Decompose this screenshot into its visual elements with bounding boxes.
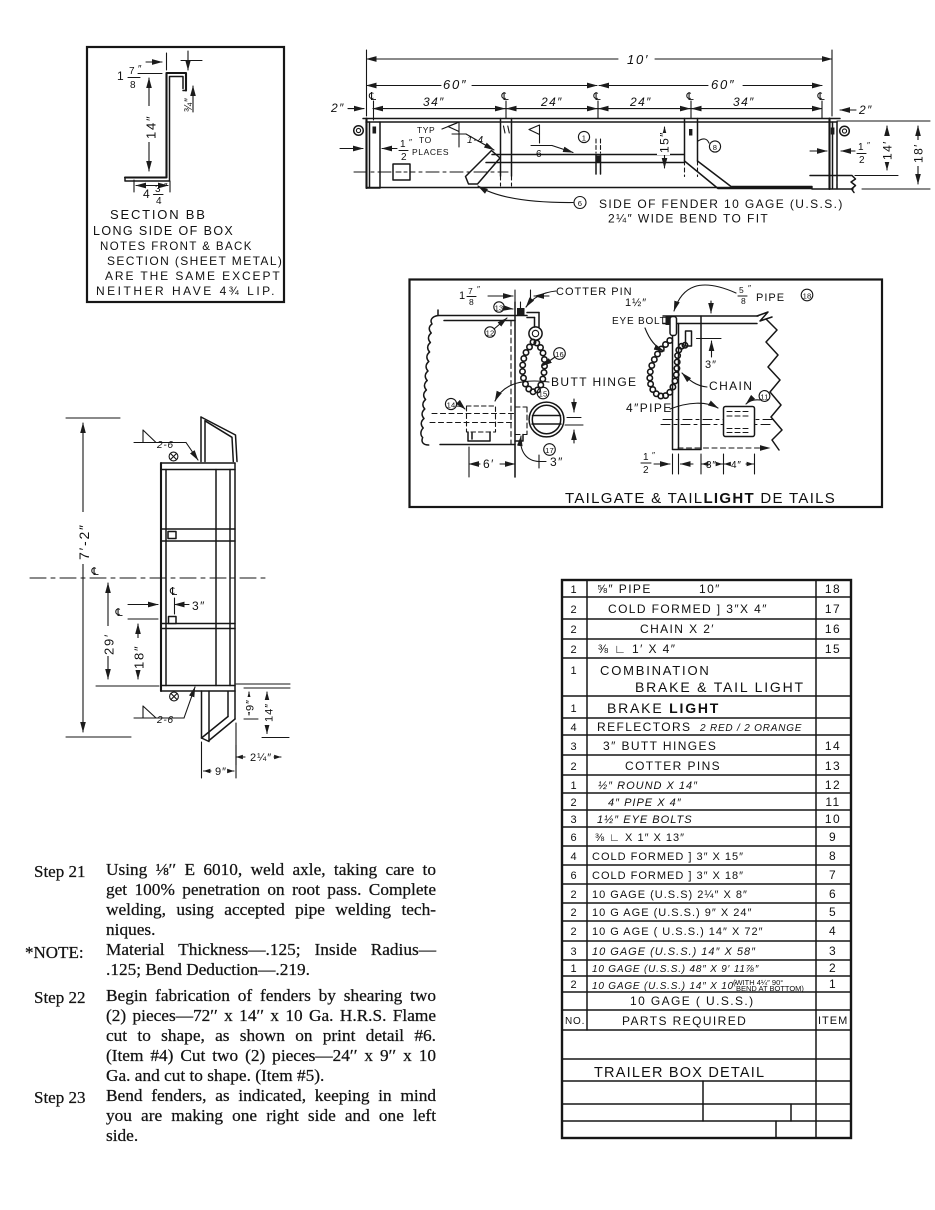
- svg-text:3″ BUTT HINGES: 3″ BUTT HINGES: [603, 739, 717, 753]
- section BB Z-profile sheet metal outline: [125, 73, 186, 178]
- svg-text:BEND AT BOTTOM): BEND AT BOTTOM): [736, 984, 804, 993]
- weld symbol 6 flag: [529, 125, 552, 146]
- top edge double line: [161, 463, 235, 470]
- svg-text:2 RED / 2 ORANGE: 2 RED / 2 ORANGE: [699, 723, 802, 734]
- dim 3 inch chain drop: [697, 338, 722, 340]
- lower cross member: [161, 624, 235, 629]
- svg-text:1: 1: [570, 584, 577, 596]
- svg-text:1: 1: [570, 703, 577, 715]
- eye bolt rod: [670, 317, 677, 336]
- svg-text:CHAIN: CHAIN: [709, 379, 753, 393]
- taillight: [529, 402, 564, 437]
- dim 9 inch vertical: [248, 692, 250, 715]
- right stake pocket: [685, 119, 698, 162]
- end wall left edge: [160, 463, 162, 691]
- chain keeper: [686, 331, 692, 346]
- dim 2 inch right: [840, 109, 856, 111]
- svg-text:15: 15: [825, 642, 841, 656]
- svg-text:2: 2: [859, 155, 865, 166]
- svg-text:2: 2: [570, 624, 577, 636]
- svg-text:8: 8: [469, 297, 474, 307]
- dimension 4 3/4 inch flange: [136, 185, 168, 187]
- svg-text:6: 6: [536, 149, 542, 160]
- svg-text:3: 3: [570, 814, 577, 826]
- dimension 3/4 lip: [192, 86, 194, 96]
- svg-text:60″: 60″: [443, 77, 467, 92]
- weld symbol 2-6 bottom: [134, 706, 184, 718]
- svg-text:2: 2: [570, 979, 577, 991]
- svg-text:2: 2: [570, 644, 577, 656]
- svg-text:5: 5: [739, 285, 744, 295]
- svg-text:COLD FORMED ] 3″ X 18″: COLD FORMED ] 3″ X 18″: [592, 870, 744, 882]
- svg-text:COTTER PIN: COTTER PIN: [556, 286, 633, 298]
- svg-text:16: 16: [825, 622, 841, 636]
- upper cross member: [161, 529, 235, 541]
- svg-text:18: 18: [803, 292, 812, 301]
- svg-text:PLACES: PLACES: [412, 147, 449, 157]
- extension lines row: [374, 101, 823, 120]
- svg-text:1: 1: [570, 963, 577, 975]
- svg-text:1: 1: [829, 977, 837, 991]
- left stake bolt: [373, 127, 377, 134]
- fender diagonal (left): [466, 151, 501, 185]
- svg-text:2″: 2″: [330, 101, 345, 115]
- svg-text:3: 3: [155, 184, 161, 195]
- svg-text:1: 1: [643, 452, 649, 463]
- svg-text:TRAILER BOX DETAIL: TRAILER BOX DETAIL: [594, 1065, 765, 1081]
- svg-text:″: ″: [748, 283, 752, 293]
- svg-text:4: 4: [156, 196, 162, 207]
- svg-text:COTTER PINS: COTTER PINS: [625, 759, 721, 773]
- balloon 17: [544, 444, 556, 456]
- hinge eye circle: [529, 327, 542, 340]
- svg-text:10 GAGE (U.S.S.) 14″ X 58″: 10 GAGE (U.S.S.) 14″ X 58″: [592, 946, 756, 958]
- svg-text:4″: 4″: [731, 460, 742, 471]
- lower clip: [169, 617, 177, 624]
- svg-text:9: 9: [829, 830, 837, 844]
- svg-text:7′-2″: 7′-2″: [76, 523, 92, 560]
- fender diagonal (right) and low run: [685, 161, 813, 189]
- svg-text:COLD FORMED ] 3″X 4″: COLD FORMED ] 3″X 4″: [608, 602, 768, 616]
- svg-text:1½″ EYE BOLTS: 1½″ EYE BOLTS: [597, 814, 693, 826]
- svg-text:14″: 14″: [144, 115, 159, 139]
- balloon 16: [554, 348, 566, 360]
- svg-text:3″: 3″: [706, 460, 717, 471]
- top flap (fender top bend): [201, 417, 205, 462]
- svg-text:34″: 34″: [423, 95, 445, 109]
- taillight height dim: [573, 399, 575, 412]
- right frame strip with break: [810, 176, 856, 193]
- side view top rails: [363, 119, 840, 123]
- svg-text:2: 2: [829, 961, 837, 975]
- centerline symbols row: [368, 91, 376, 103]
- svg-text:LONG SIDE OF BOX: LONG SIDE OF BOX: [93, 224, 234, 238]
- svg-text:1: 1: [858, 142, 864, 153]
- svg-text:24″: 24″: [629, 95, 652, 109]
- svg-text:2¼″ WIDE BEND TO FIT: 2¼″ WIDE BEND TO FIT: [608, 212, 769, 226]
- svg-text:2: 2: [570, 604, 577, 616]
- step instructions text block: [34, 862, 85, 882]
- svg-text:1: 1: [459, 290, 466, 302]
- svg-text:NOTES FRONT & BACK: NOTES FRONT & BACK: [100, 241, 253, 253]
- svg-text:15: 15: [539, 390, 548, 399]
- hidden stake pocket (dashed): [596, 139, 601, 153]
- tailgate details border frame: [410, 280, 883, 508]
- dim chain line 34-24-24-34: [373, 108, 822, 110]
- svg-text:16: 16: [555, 350, 564, 359]
- dim 2 1/4 inch: [235, 745, 237, 765]
- svg-text:3: 3: [570, 946, 577, 958]
- svg-text:1½″: 1½″: [625, 297, 647, 309]
- svg-text:EYE BOLT: EYE BOLT: [612, 316, 667, 327]
- dim 18 inch right side: [862, 188, 930, 190]
- balloon 11: [759, 391, 770, 402]
- svg-text:12: 12: [486, 329, 495, 338]
- svg-text:3: 3: [829, 944, 837, 958]
- center stake pocket: [501, 119, 512, 177]
- svg-text:10 GAGE ( U.S.S.): 10 GAGE ( U.S.S.): [630, 994, 755, 1008]
- svg-text:17: 17: [825, 602, 841, 616]
- svg-text:″: ″: [652, 450, 656, 460]
- axle centerline: [354, 171, 508, 173]
- balloon 14: [445, 398, 456, 409]
- dim 10 ft overall: [367, 50, 833, 116]
- svg-text:BRAKE & TAIL LIGHT: BRAKE & TAIL LIGHT: [635, 679, 805, 695]
- dim 29 ft: [107, 583, 109, 679]
- section BB border frame: [87, 47, 284, 302]
- svg-text:⅜ ∟ 1′ X 4″: ⅜ ∟ 1′ X 4″: [598, 642, 676, 656]
- svg-text:½″ ROUND X 14″: ½″ ROUND X 14″: [598, 780, 698, 792]
- svg-text:6: 6: [570, 870, 577, 882]
- svg-text:14′: 14′: [881, 140, 895, 160]
- svg-text:10 GAGE (U.S.S) 2¼″ X 8″: 10 GAGE (U.S.S) 2¼″ X 8″: [592, 889, 748, 901]
- bottom bolt circle: [170, 692, 179, 701]
- svg-text:SIDE OF FENDER 10 GAGE (: SIDE OF FENDER 10 GAGE (U.S.S.): [599, 197, 844, 211]
- bottom extension line: [96, 685, 159, 687]
- svg-text:ARE THE SAME EXCEPT: ARE THE SAME EXCEPT: [105, 269, 282, 283]
- svg-text:6: 6: [829, 887, 837, 901]
- svg-text:11: 11: [825, 795, 840, 809]
- left detail: box rear top rail: [438, 310, 527, 321]
- svg-text:PARTS REQUIRED: PARTS REQUIRED: [622, 1014, 747, 1028]
- fender rails: [486, 155, 684, 163]
- svg-text:12: 12: [825, 778, 841, 792]
- svg-text:2: 2: [570, 797, 577, 809]
- svg-text:1-4: 1-4: [467, 135, 484, 146]
- svg-text:6: 6: [570, 832, 577, 844]
- svg-text:13: 13: [495, 304, 504, 313]
- svg-text:10 G AGE ( U.S.S.) 14″ X 72″: 10 G AGE ( U.S.S.) 14″ X 72″: [592, 926, 764, 938]
- svg-text:CHAIN X 2′: CHAIN X 2′: [640, 622, 715, 636]
- tailgate verticals right detail: [673, 316, 702, 449]
- torn left edge of box: [421, 316, 438, 446]
- svg-text:14: 14: [447, 401, 456, 410]
- balloon 13: [494, 302, 504, 312]
- svg-text:1: 1: [570, 780, 577, 792]
- svg-text:3″: 3″: [705, 359, 717, 371]
- center stake hash mark: [504, 126, 510, 133]
- svg-text:2-6: 2-6: [156, 440, 174, 451]
- dim 14 inch right side: [837, 121, 930, 176]
- torn right edge zigzag: [766, 319, 782, 450]
- svg-text:2: 2: [401, 152, 407, 163]
- dim 60 inch right: [599, 85, 708, 87]
- svg-text:3″: 3″: [192, 599, 206, 613]
- svg-text:18′: 18′: [912, 143, 926, 163]
- svg-text:″: ″: [164, 182, 168, 193]
- svg-text:NO.: NO.: [565, 1016, 585, 1027]
- svg-text:2-6: 2-6: [156, 715, 174, 726]
- svg-text:⅜ ∟ X 1″ X 13″: ⅜ ∟ X 1″ X 13″: [595, 832, 685, 844]
- svg-text:1: 1: [400, 139, 406, 150]
- svg-text:¾″: ¾″: [183, 97, 195, 112]
- svg-text:18″: 18″: [132, 645, 147, 669]
- axle box: [393, 164, 410, 180]
- svg-text:14″: 14″: [264, 703, 276, 722]
- svg-text:4: 4: [143, 187, 151, 201]
- svg-text:1: 1: [582, 134, 586, 143]
- svg-text:10 G AGE (U.S.S.) 9″ X 24″: 10 G AGE (U.S.S.) 9″ X 24″: [592, 907, 752, 919]
- svg-text:24″: 24″: [540, 95, 563, 109]
- dim 14 inch vertical: [266, 692, 268, 734]
- cotter pin and hinge pin: [520, 302, 522, 310]
- bottom edge double line: [161, 686, 235, 692]
- bottom flap (fender bottom bend): [202, 691, 210, 741]
- dim 60 inch left: [367, 85, 442, 87]
- title block inner dividers: [703, 1081, 791, 1138]
- dimension 14 inch web: [138, 73, 162, 75]
- svg-text:1: 1: [570, 665, 577, 677]
- svg-text:⅝″ PIPE: ⅝″ PIPE: [597, 582, 652, 596]
- svg-text:11: 11: [760, 393, 768, 402]
- svg-text:3″: 3″: [550, 455, 564, 469]
- svg-text:4: 4: [829, 924, 837, 938]
- balloon 6: [574, 197, 586, 209]
- svg-text:ITEM: ITEM: [818, 1015, 848, 1027]
- left tie ring: [354, 126, 364, 136]
- svg-text:2: 2: [570, 907, 577, 919]
- svg-text:8: 8: [741, 296, 746, 306]
- right stake bolt: [831, 128, 835, 135]
- bottom dims right detail: [673, 454, 755, 474]
- balloon 1: [578, 131, 589, 142]
- svg-text:10 GAGE (U.S.S.) 48″ X 9′ 11⅞: 10 GAGE (U.S.S.) 48″ X 9′ 11⅞″: [592, 964, 759, 975]
- svg-text:SECTION BB: SECTION BB: [110, 207, 207, 222]
- svg-text:REFLECTORS: REFLECTORS: [597, 720, 691, 734]
- svg-text:1: 1: [117, 69, 125, 83]
- pipe (item 11): [724, 407, 755, 437]
- end wall right edge: [230, 463, 235, 691]
- svg-text:2¼″: 2¼″: [250, 752, 272, 764]
- left stake: [365, 119, 367, 189]
- svg-text:2: 2: [570, 889, 577, 901]
- weld symbol 1-4 flag: [448, 122, 466, 147]
- box bottom line: [440, 444, 515, 446]
- svg-text:2: 2: [570, 761, 577, 773]
- svg-text:TYP: TYP: [417, 125, 435, 135]
- hidden gate lines dashed: [661, 420, 772, 425]
- box floor line: [367, 187, 813, 189]
- right pocket bolt: [689, 129, 692, 136]
- svg-text:SECTION (SHEET METAL): SECTION (SHEET METAL): [107, 254, 283, 268]
- svg-text:34″: 34″: [733, 95, 755, 109]
- top rail right detail: [663, 316, 758, 324]
- arrow at gate top: [710, 301, 712, 313]
- svg-text:14: 14: [825, 739, 841, 753]
- balloon 8 with leader: [698, 139, 709, 143]
- svg-text:TAILGATE & TAILLIGHT DE TAIL: TAILGATE & TAILLIGHT DE TAILS: [565, 490, 836, 507]
- svg-text:BRAKE LIGHT: BRAKE LIGHT: [607, 700, 720, 716]
- dim 18 inch: [128, 618, 158, 620]
- svg-text:7: 7: [468, 286, 473, 296]
- hidden backing plate (dashed): [467, 406, 496, 432]
- svg-text:10′: 10′: [627, 52, 649, 67]
- dim 3 inch offset: [128, 604, 158, 606]
- svg-text:10″: 10″: [699, 582, 721, 596]
- inner face line: [215, 470, 217, 686]
- svg-text:17: 17: [545, 446, 554, 455]
- svg-text:18: 18: [825, 582, 841, 596]
- svg-text:NEITHER HAVE 4¾ LIP.: NEITHER HAVE 4¾ LIP.: [96, 284, 277, 298]
- dim 1/2 inch right: [810, 150, 827, 152]
- dim 9 inch bottom: [202, 723, 237, 778]
- svg-text:8: 8: [829, 849, 837, 863]
- svg-text:10: 10: [825, 812, 841, 826]
- dim 15 inch: [664, 127, 666, 168]
- svg-text:″: ″: [477, 284, 481, 294]
- top bolt circle: [169, 452, 178, 461]
- right extension lines: [236, 684, 290, 738]
- svg-text:15″: 15″: [658, 131, 672, 153]
- svg-text:6′: 6′: [483, 457, 495, 471]
- hidden tailgate inner edge (dashed): [510, 321, 512, 444]
- svg-text:4: 4: [570, 722, 577, 734]
- svg-text:PIPE: PIPE: [756, 292, 785, 304]
- chain right detail: [647, 338, 688, 399]
- svg-text:″: ″: [867, 140, 871, 150]
- svg-text:6: 6: [578, 199, 582, 208]
- bottom dashed edge with arrow: [678, 447, 770, 449]
- dim 1/2 inch left: [340, 148, 363, 150]
- svg-text:7: 7: [829, 868, 837, 882]
- fender callout leader: [478, 186, 573, 203]
- right stake: [828, 119, 830, 190]
- svg-text:5: 5: [829, 905, 837, 919]
- chain left detail: [520, 339, 547, 394]
- svg-text:TO: TO: [419, 135, 432, 145]
- hinge plate at taillight (dashed): [515, 407, 527, 435]
- table column lines: [587, 580, 816, 1138]
- svg-text:BUTT HINGE: BUTT HINGE: [551, 375, 637, 389]
- svg-text:9″: 9″: [245, 699, 257, 711]
- weld symbol 2-6 top: [134, 430, 186, 443]
- svg-text:13: 13: [825, 759, 841, 773]
- hidden floor lines (dashed): [430, 414, 515, 423]
- svg-text:COMBINATION: COMBINATION: [600, 663, 711, 678]
- svg-text:4″PIPE: 4″PIPE: [626, 401, 673, 415]
- upper cross member clip: [168, 532, 176, 539]
- table outer frame: [562, 580, 851, 1138]
- dim 7ft-2in: [66, 418, 131, 737]
- dim 6 ft: [469, 445, 515, 477]
- svg-text:7: 7: [129, 66, 135, 77]
- svg-text:″: ″: [409, 137, 413, 147]
- tailgate edge vertical: [514, 302, 516, 477]
- horizontal centerline: [30, 577, 270, 579]
- svg-text:2: 2: [643, 465, 649, 476]
- svg-text:60″: 60″: [711, 77, 735, 92]
- dimension tick top-right of lip: [181, 51, 202, 70]
- balloon 12: [485, 327, 495, 337]
- balloon 15: [537, 387, 549, 399]
- svg-text:4: 4: [570, 851, 577, 863]
- table row lines: [562, 597, 851, 1121]
- backing plate bracket: [468, 432, 490, 441]
- svg-text:COLD FORMED ] 3″ X 15″: COLD FORMED ] 3″ X 15″: [592, 851, 744, 863]
- svg-text:2″: 2″: [858, 103, 873, 117]
- balloon 18: [801, 289, 813, 301]
- svg-text:3: 3: [570, 741, 577, 753]
- svg-text:8: 8: [713, 143, 717, 152]
- svg-text:9″: 9″: [215, 766, 227, 778]
- svg-text:10 GAGE (U.S.S.) 14″ X 10′: 10 GAGE (U.S.S.) 14″ X 10′: [592, 981, 737, 992]
- svg-text:4″ PIPE X 4″: 4″ PIPE X 4″: [608, 797, 682, 809]
- svg-text:2: 2: [570, 926, 577, 938]
- svg-text:8: 8: [130, 80, 136, 91]
- svg-text:29′: 29′: [102, 633, 117, 655]
- 3 inch leader at taillight: [521, 436, 539, 462]
- right tie ring: [840, 126, 850, 136]
